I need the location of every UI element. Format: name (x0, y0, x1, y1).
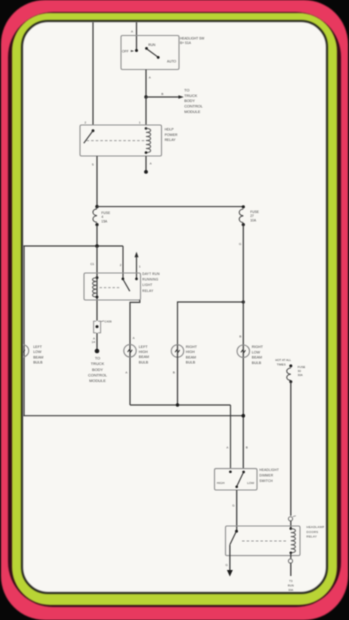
fuse F1 (93, 209, 99, 226)
svg-text:BEAM: BEAM (186, 355, 196, 359)
svg-text:RIGHT: RIGHT (252, 345, 264, 349)
inline connector C409 (94, 321, 104, 333)
relay K1 coil (145, 127, 151, 154)
relay K2 coil (93, 276, 99, 298)
svg-text:HIGH: HIGH (139, 350, 148, 354)
svg-text:HDLP: HDLP (165, 128, 175, 132)
relay K2 actuation dashed link (100, 287, 120, 289)
svg-text:10A: 10A (250, 219, 257, 223)
relay K3 contact node (235, 530, 238, 533)
switch blade SW1 (147, 49, 159, 58)
svg-text:FUSE: FUSE (101, 211, 111, 215)
svg-text:27: 27 (250, 214, 254, 218)
dimmer HIGH terminal node (229, 470, 232, 473)
wire high rail corner down to dimmer (230, 405, 232, 469)
OFF terminal label (122, 49, 134, 53)
wire relay K3 contact to ground (229, 545, 231, 570)
dimmer name HEADLIGHT DIMMER SWITCH (259, 468, 279, 483)
headlight switch SW1 box (121, 36, 179, 70)
junction node low rail (242, 414, 246, 418)
svg-text:BEAM: BEAM (33, 355, 43, 359)
high beam rail (130, 404, 231, 406)
wire junction to relay K1 (145, 97, 147, 125)
svg-text:FUSE: FUSE (250, 210, 260, 214)
svg-text:1: 1 (139, 120, 141, 124)
svg-text:30A: 30A (288, 588, 293, 592)
svg-text:2: 2 (120, 263, 122, 267)
svg-text:4: 4 (101, 215, 103, 219)
svg-text:HEADLAMP: HEADLAMP (307, 525, 325, 529)
wire relay output down to fuse F1 (96, 156, 98, 207)
wire left edge feed to left low beam (23, 246, 25, 416)
svg-text:BEAM: BEAM (139, 355, 149, 359)
svg-text:T3: T3 (289, 579, 293, 583)
fuse F2 value label (250, 210, 260, 223)
fuse F1 value label (101, 211, 111, 224)
relay K1 contact node (92, 129, 95, 132)
svg-text:B: B (173, 370, 175, 374)
inline connector below doors relay (288, 559, 292, 576)
svg-text:LEFT: LEFT (33, 345, 43, 349)
svg-text:B: B (161, 92, 163, 96)
net label T3 RUN 30A (288, 579, 294, 592)
relay K3 coil (290, 527, 296, 554)
off-page arrow from DRL module (135, 252, 139, 279)
wire dimmer common down to doors relay (236, 490, 238, 531)
svg-text:2: 2 (85, 120, 87, 124)
svg-text:B: B (239, 334, 241, 338)
svg-text:TIMES: TIMES (277, 362, 286, 366)
relay K1 contact blade (84, 131, 93, 143)
relay K2 contact blade (123, 280, 130, 292)
dimmer LOW terminal node (242, 471, 245, 474)
net label HOT AT ALL TIMES (275, 358, 291, 366)
wire into headlight switch (136, 22, 138, 51)
junction node high rail (176, 403, 179, 406)
svg-text:HOT AT ALL: HOT AT ALL (275, 358, 291, 362)
pin labels A 14 (92, 337, 96, 344)
svg-text:G: G (226, 563, 229, 567)
svg-text:30A: 30A (298, 373, 303, 377)
svg-text:HEADLIGHT SW: HEADLIGHT SW (180, 37, 204, 41)
lamp E4 label RIGHT LOW BEAM BULB (252, 345, 264, 365)
lamp E3 label RIGHT HIGH BEAM BULB (186, 345, 198, 365)
svg-text:TO: TO (95, 356, 100, 361)
node at fuse F3 top (289, 364, 292, 367)
svg-text:RIGHT: RIGHT (186, 345, 198, 349)
svg-text:HIGH: HIGH (217, 481, 225, 485)
svg-text:MODULE: MODULE (184, 110, 201, 114)
horizontal rail to left headlamp (22, 245, 123, 247)
lamp E1 label LEFT LOW BEAM BULB (33, 345, 43, 365)
svg-text:A: A (125, 370, 127, 374)
dimmer blade (235, 473, 243, 489)
svg-text:POWER: POWER (165, 133, 178, 137)
relay K2 name DAYTIME RUNNING LIGHT RELAY (142, 272, 160, 293)
relay K2 contact node (122, 278, 125, 281)
relay K3 actuation dashed link (242, 540, 288, 542)
svg-text:AUTO: AUTO (167, 59, 177, 63)
node at fuse F1 top (95, 205, 98, 208)
svg-text:C409: C409 (104, 320, 112, 324)
svg-text:LOW: LOW (252, 350, 261, 354)
svg-text:SWITCH: SWITCH (259, 479, 273, 483)
relay K1 actuation dashed link (87, 140, 145, 142)
headlamp doors relay K3 box (226, 526, 301, 556)
relay K2 second terminal node (135, 278, 138, 281)
right low beam bulb E4 (237, 345, 249, 357)
svg-text:RUN: RUN (148, 43, 156, 47)
svg-text:S: S (92, 162, 94, 166)
headlight dimmer switch SW2 box (215, 469, 258, 490)
svg-text:B: B (246, 446, 248, 450)
svg-text:RELAY: RELAY (142, 289, 154, 293)
left high beam bulb E2 (124, 345, 136, 357)
svg-text:BULB: BULB (33, 361, 43, 365)
svg-text:BULB: BULB (252, 361, 262, 365)
switch pivot node (145, 47, 148, 50)
svg-text:G: G (232, 503, 235, 507)
svg-text:TO: TO (184, 89, 189, 93)
ground (227, 570, 233, 577)
horizontal rail to fuse F2 (97, 206, 243, 208)
wire from B+ feed to headlight switch box (92, 22, 94, 125)
relay K1 name HDLP POWER RELAY (165, 128, 178, 142)
svg-text:RUNNING: RUNNING (142, 278, 159, 282)
svg-text:1: 1 (139, 264, 141, 268)
fuse F3 (287, 368, 293, 383)
lamp E2 label LEFT HIGH BEAM BULB (139, 345, 149, 365)
svg-text:BODY: BODY (92, 367, 103, 372)
svg-text:LIGHT: LIGHT (142, 283, 152, 287)
relay K3 contact blade (230, 532, 236, 545)
svg-text:BEAM: BEAM (252, 356, 262, 360)
net label TO TRUCK BODY CONTROL MODULE (lower) (88, 356, 108, 383)
svg-text:LOW: LOW (33, 350, 42, 354)
relay K3 name HEADLAMP DOORS RELAY (307, 525, 325, 538)
svg-text:TRUCK: TRUCK (184, 94, 198, 98)
svg-text:A: A (133, 336, 135, 340)
arrow to truck body control module (146, 95, 184, 99)
wire fuse F1 to rail (96, 225, 98, 246)
svg-text:A: A (150, 162, 152, 166)
wire fuse F3 to doors relay coil (290, 382, 292, 516)
svg-text:BULB: BULB (139, 360, 149, 364)
low beam ground rail (22, 415, 244, 417)
fuse F3 value label (298, 365, 306, 377)
svg-text:LOW: LOW (247, 481, 254, 485)
svg-text:G: G (239, 242, 242, 246)
svg-text:HIGH: HIGH (186, 350, 195, 354)
svg-text:B+ S1A: B+ S1A (180, 41, 192, 45)
wire relay K2 output jog to left high beam (130, 300, 140, 405)
right high beam bulb E3 (171, 345, 183, 357)
junction node J1 (144, 95, 147, 98)
svg-text:DAYT RUN: DAYT RUN (142, 272, 160, 276)
wire rail corner down into DRL relay (122, 246, 124, 279)
svg-text:A: A (131, 29, 133, 33)
svg-text:RELAY: RELAY (165, 138, 177, 142)
svg-text:14: 14 (92, 340, 96, 344)
inline connector above doors relay (288, 516, 295, 529)
svg-text:BODY: BODY (184, 99, 195, 103)
svg-text:TRUCK: TRUCK (91, 361, 105, 366)
splice node S2 (144, 170, 148, 174)
DRL relay K2 box (84, 273, 141, 300)
wire right high beam through lamp down (177, 345, 179, 405)
net label TO TRUCK BODY CONTROL MODULE (184, 89, 203, 114)
svg-text:OFF: OFF (122, 49, 129, 53)
svg-text:HEADLIGHT: HEADLIGHT (259, 468, 279, 472)
node at fuse F2 top (242, 205, 245, 208)
svg-text:DIMMER: DIMMER (259, 474, 273, 478)
fuse F2 (239, 209, 245, 226)
junction node on right low wire (242, 300, 245, 303)
wire to module terminal (95, 333, 100, 353)
svg-text:A: A (226, 446, 228, 450)
svg-text:MODULE: MODULE (89, 378, 106, 383)
wire through DRL relay coil (96, 246, 98, 321)
relay coil ground stub wire (145, 156, 147, 172)
svg-text:CONTROL: CONTROL (88, 372, 108, 377)
horizontal link right high beam to right low wire (178, 302, 244, 345)
wire right low beam vertical (242, 225, 244, 469)
wire switch output down (145, 70, 147, 98)
svg-text:BULB: BULB (186, 361, 196, 365)
svg-text:CONTROL: CONTROL (184, 105, 203, 109)
svg-text:A: A (149, 75, 151, 79)
svg-text:DOORS: DOORS (307, 530, 319, 534)
wire coil bottom to connector (290, 553, 292, 559)
svg-text:15A: 15A (101, 220, 108, 224)
svg-text:RUN: RUN (288, 584, 294, 588)
svg-text:C1: C1 (90, 262, 94, 266)
net label HEADLIGHT SW B+ (180, 37, 204, 46)
power relay K1 box (80, 125, 162, 156)
svg-text:LEFT: LEFT (139, 345, 149, 349)
svg-text:RELAY: RELAY (307, 534, 318, 538)
junction node on rail (95, 244, 99, 248)
switch input terminal node (135, 49, 138, 52)
left low beam bulb E1 (16, 345, 28, 357)
